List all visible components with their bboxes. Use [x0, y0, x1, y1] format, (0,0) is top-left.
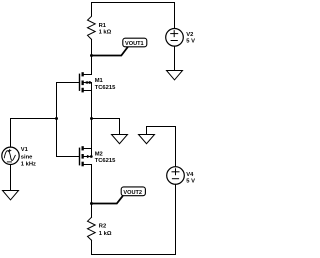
- node VOUT1 junction: [90, 54, 93, 57]
- wire R2 bottom: [91, 240, 93, 254]
- wire V2 top stem: [174, 3, 176, 29]
- voltage source V2: [166, 29, 184, 47]
- wire R1 bottom to M1 drain: [91, 39, 93, 74]
- svg-text:TC6215: TC6215: [95, 158, 116, 164]
- svg-text:5 V: 5 V: [186, 39, 195, 45]
- svg-text:5 V: 5 V: [186, 179, 195, 185]
- svg-text:sine: sine: [21, 154, 33, 160]
- wire M2 drain to R2: [91, 165, 93, 218]
- wire M1 source to M2 source rail: [91, 91, 93, 149]
- ground below V1: [3, 191, 19, 200]
- node VOUT2 junction: [90, 202, 93, 205]
- ground below V2: [167, 71, 183, 80]
- resistor R2: [88, 217, 96, 240]
- node gate junction: [55, 117, 58, 120]
- wire mid node to ground: [92, 119, 120, 135]
- svg-text:1 kΩ: 1 kΩ: [99, 29, 112, 35]
- svg-text:V2: V2: [186, 32, 193, 38]
- wire V1 bottom: [10, 165, 12, 191]
- wire gate rail: [56, 83, 58, 157]
- svg-text:V1: V1: [21, 147, 29, 153]
- transistor M1 (NMOS TC6215): [57, 72, 92, 92]
- transistor M2 (PMOS TC6215): [57, 146, 93, 166]
- ground mid-left: [112, 135, 128, 144]
- svg-text:M1: M1: [95, 78, 104, 84]
- svg-text:V4: V4: [186, 172, 194, 178]
- voltage source V1 (sine): [2, 147, 19, 164]
- svg-text:TC6215: TC6215: [95, 85, 116, 91]
- svg-text:R1: R1: [99, 23, 107, 29]
- ground mid-right: [139, 135, 155, 144]
- node mid junction: [90, 117, 93, 120]
- flag VOUT2: [92, 187, 145, 204]
- svg-text:1 kΩ: 1 kΩ: [99, 231, 112, 237]
- svg-text:VOUT2: VOUT2: [123, 190, 142, 196]
- resistor R1: [88, 3, 96, 40]
- wire mid-right ground to V4: [147, 127, 176, 167]
- svg-text:VOUT1: VOUT1: [125, 41, 144, 47]
- wire V4 bottom / right rail / bottom rail: [92, 184, 176, 254]
- wire V1 top to gate rail: [11, 119, 57, 148]
- svg-text:M2: M2: [95, 151, 103, 157]
- svg-text:R2: R2: [99, 224, 106, 230]
- voltage source V4: [167, 167, 185, 185]
- wire top rail: [92, 2, 175, 4]
- svg-text:1 kHz: 1 kHz: [21, 162, 36, 168]
- flag VOUT1: [92, 38, 147, 55]
- wire V2 bottom stem: [174, 46, 176, 70]
